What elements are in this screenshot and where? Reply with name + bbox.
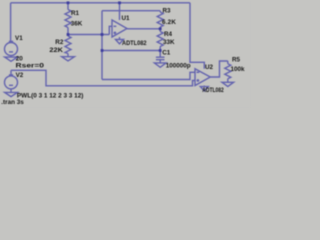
svg-text:V2: V2 xyxy=(16,72,24,79)
wire U1 output xyxy=(127,28,160,30)
svg-text:R4: R4 xyxy=(164,31,173,38)
svg-text:6.2K: 6.2K xyxy=(162,19,176,26)
svg-text:36K: 36K xyxy=(71,21,83,28)
wire feedback vertical xyxy=(101,11,103,80)
svg-text:ADTL082: ADTL082 xyxy=(202,87,224,94)
svg-text:.tran 3s: .tran 3s xyxy=(1,99,24,106)
wire jog to U1 top input xyxy=(109,26,112,34)
ground U2 V- xyxy=(200,87,208,91)
ground U1 V- xyxy=(116,40,124,44)
wire to R3 top xyxy=(102,10,160,12)
resistor R3 xyxy=(157,11,163,29)
resistor R2 xyxy=(65,35,71,57)
wire U2 output xyxy=(210,61,228,77)
wire C1 bus xyxy=(102,50,160,52)
junction dots xyxy=(67,1,162,51)
node divider xyxy=(67,33,70,36)
node C1 top xyxy=(159,49,162,52)
node rail R1 xyxy=(67,1,70,4)
svg-text:33K: 33K xyxy=(163,39,175,46)
wire top rail xyxy=(11,2,190,4)
svg-text:20: 20 xyxy=(16,56,24,63)
wire U2 V+ from rail xyxy=(190,3,204,69)
node U1 output xyxy=(159,27,162,30)
svg-text:PWL(0 3 1 12 2 3 3 12): PWL(0 3 1 12 2 3 3 12) xyxy=(17,93,84,100)
capacitor C1 xyxy=(156,51,165,63)
op-amp U2 xyxy=(195,69,210,87)
resistor R1 xyxy=(65,3,71,35)
svg-text:R3: R3 xyxy=(163,8,172,15)
svg-text:C1: C1 xyxy=(162,49,171,56)
svg-text:100000p: 100000p xyxy=(166,62,191,69)
ground V2 xyxy=(5,92,18,96)
wire V2 bottom xyxy=(10,89,12,92)
svg-text:U2: U2 xyxy=(205,64,214,71)
wire V2 signal to U2 bottom input xyxy=(11,70,195,86)
node sawtooth bus xyxy=(101,49,104,52)
svg-text:R2: R2 xyxy=(55,39,64,46)
svg-text:U1: U1 xyxy=(122,15,131,22)
wire divider node to U1 xyxy=(68,34,109,36)
svg-text:100k: 100k xyxy=(231,66,246,73)
op-amp U1 xyxy=(112,3,127,40)
wire sawtooth to U2 top input xyxy=(102,72,195,79)
ground V1 xyxy=(5,57,18,61)
node feedback input xyxy=(101,33,104,36)
wire V1 stem xyxy=(10,3,12,43)
svg-text:22K: 22K xyxy=(49,47,63,54)
voltage source V1 xyxy=(5,41,18,55)
node rail U1 V+ xyxy=(118,1,121,4)
svg-text:Rser=0: Rser=0 xyxy=(16,63,45,70)
ground R2 xyxy=(62,57,75,61)
svg-text:R5: R5 xyxy=(232,56,241,63)
resistor R5 xyxy=(225,61,231,82)
svg-text:R1: R1 xyxy=(71,10,80,17)
svg-text:ADTL082: ADTL082 xyxy=(122,40,147,47)
ground C1 xyxy=(154,63,166,67)
voltage source V2 xyxy=(5,70,18,89)
wire V1 bottom xyxy=(10,56,12,58)
resistor R4 xyxy=(157,29,163,51)
ground R5 xyxy=(222,82,234,86)
svg-text:V1: V1 xyxy=(15,35,23,42)
